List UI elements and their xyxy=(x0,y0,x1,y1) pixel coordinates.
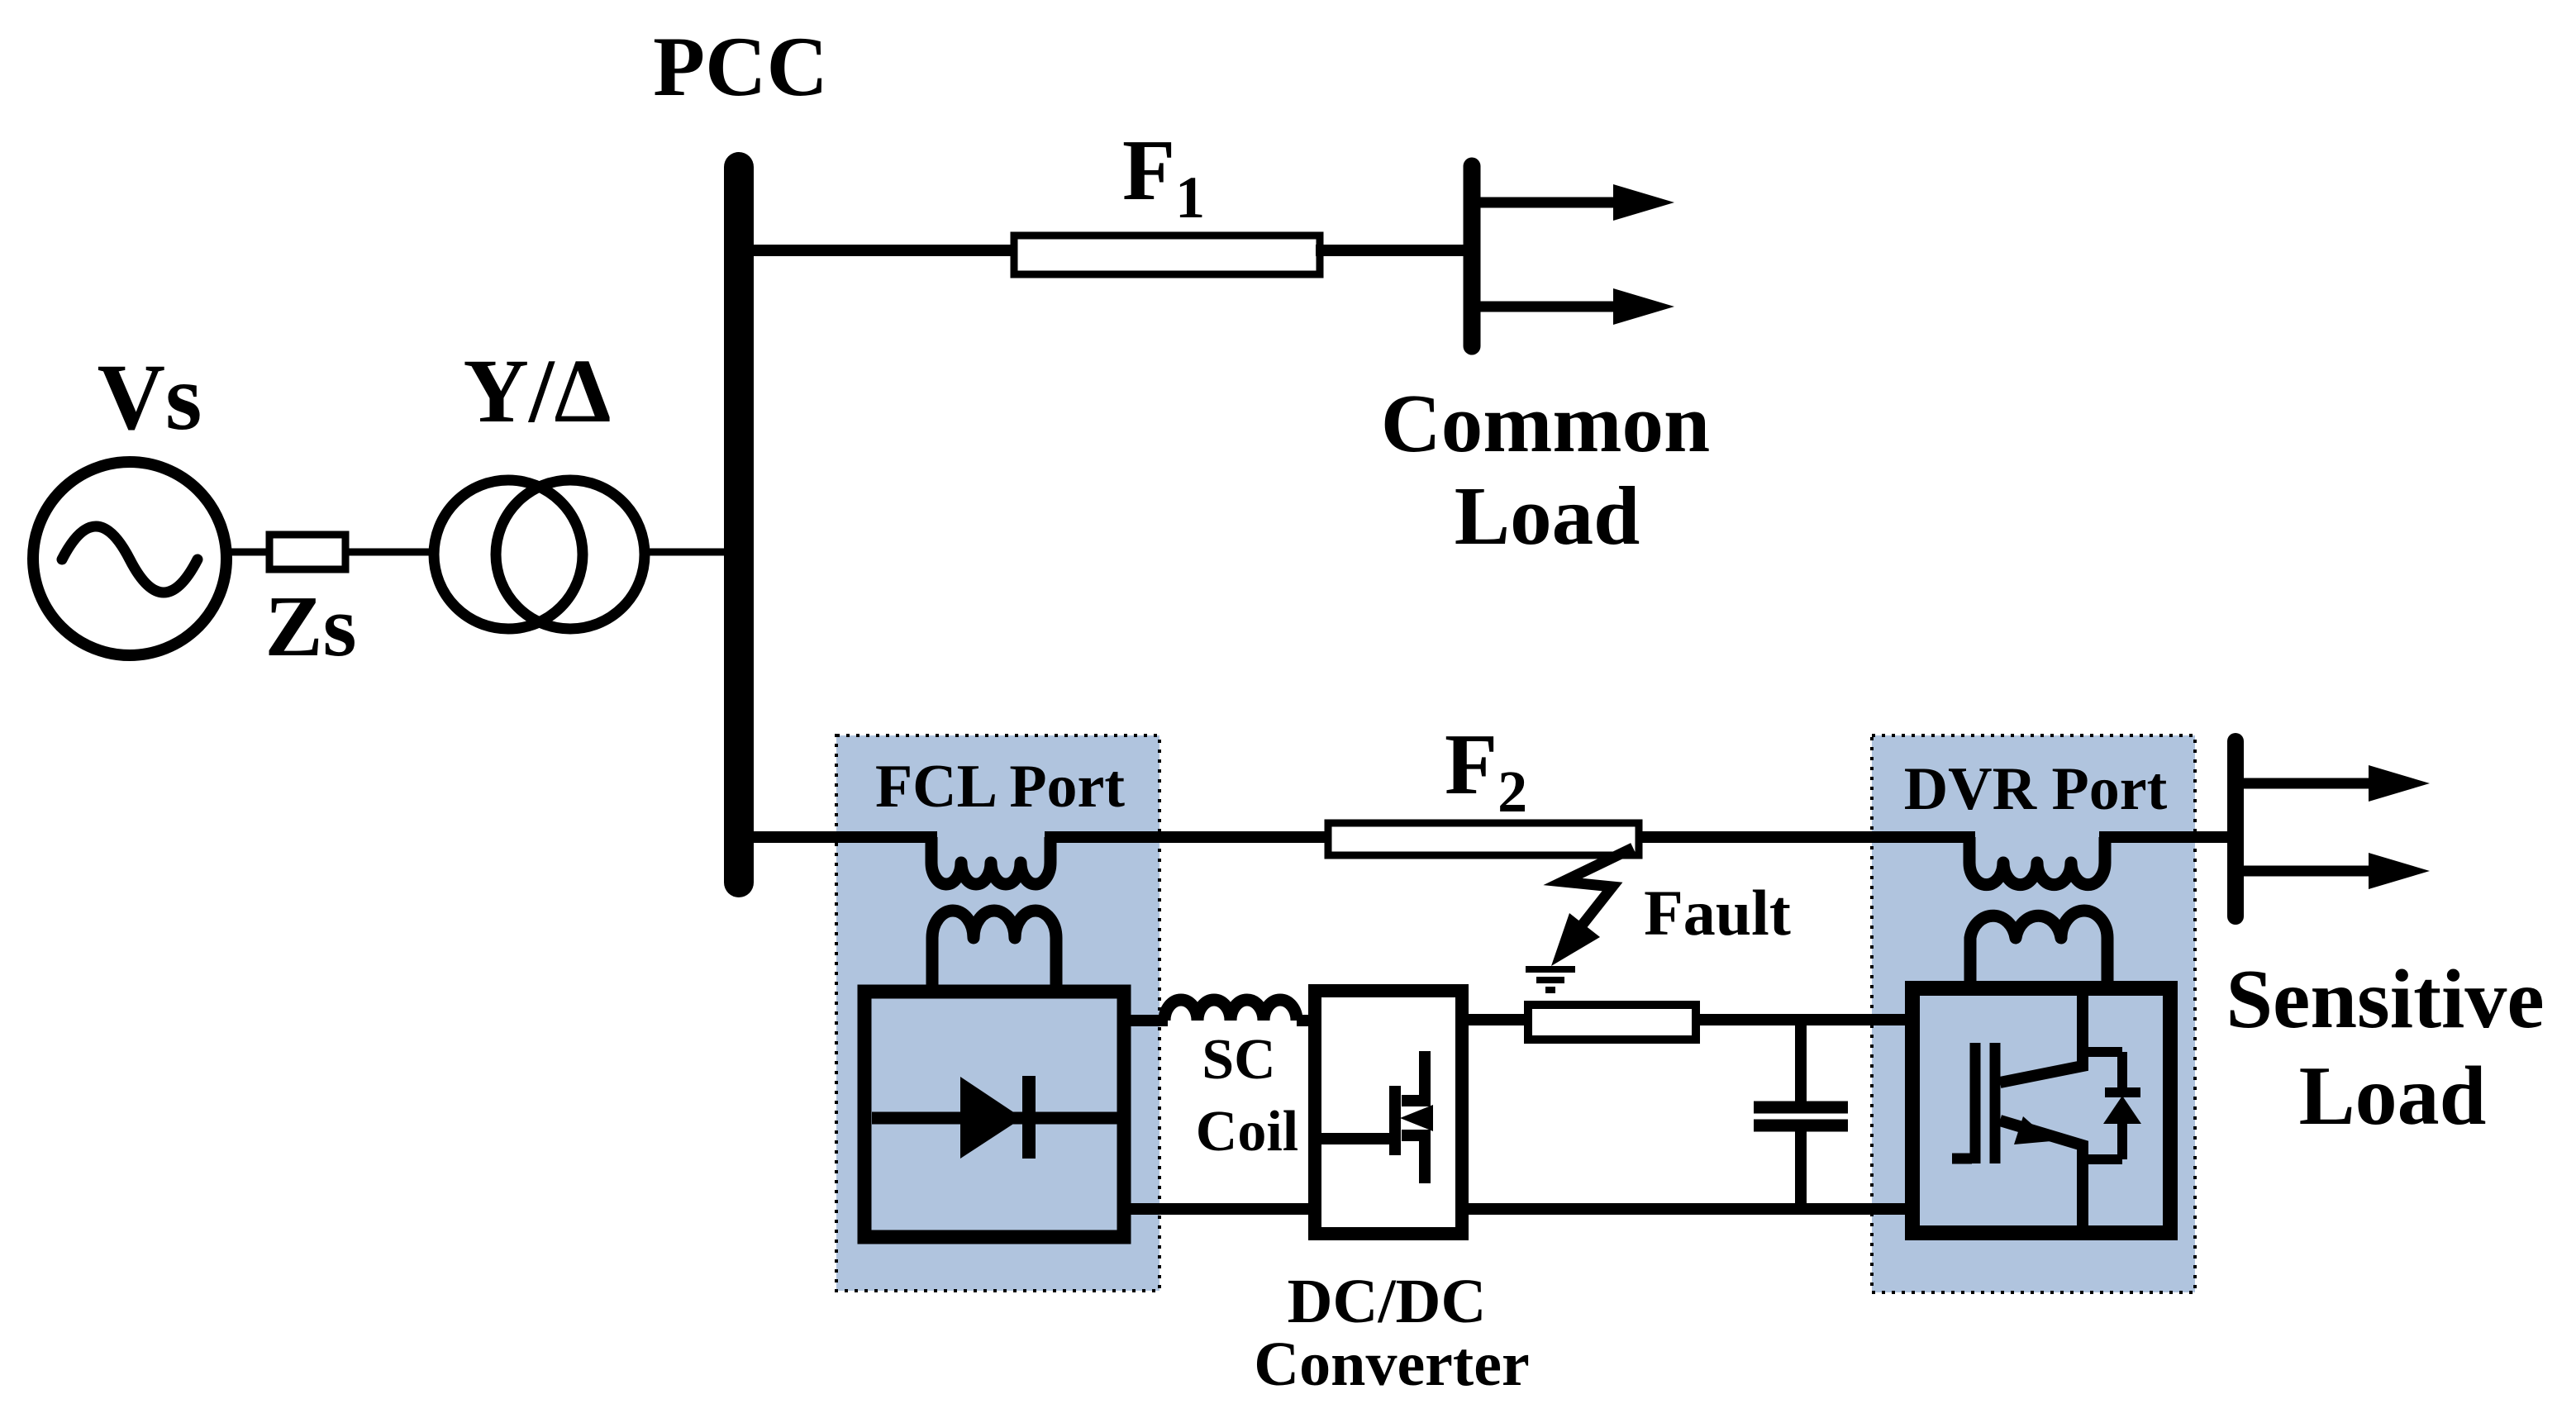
svg-text:Coil: Coil xyxy=(1196,1100,1298,1163)
MOSFET Q1 xyxy=(1321,1051,1433,1183)
DVR transformer secondary xyxy=(1970,911,2107,993)
transformer Y/D xyxy=(434,480,645,629)
wire F2 to DVR transformer xyxy=(1639,831,1975,843)
svg-text:Common: Common xyxy=(1381,377,1710,469)
svg-text:Vs: Vs xyxy=(98,345,202,450)
FCL transformer primary xyxy=(931,837,1050,884)
sensitive arrow 2 xyxy=(2243,853,2430,889)
common load bus xyxy=(1464,166,1481,346)
PCC bus xyxy=(724,167,754,883)
bottom row wire DC/DC to inverter xyxy=(1462,1203,1912,1215)
wire SC coil to DC/DC xyxy=(1297,1015,1318,1026)
wire rectifier to SC coil xyxy=(1124,1015,1168,1026)
svg-text:DC/DC: DC/DC xyxy=(1288,1267,1487,1336)
middle row wire DC/DC to fuse xyxy=(1462,1014,1531,1025)
bottom row wire rectifier to DC/DC xyxy=(1124,1203,1315,1215)
impedance Zs xyxy=(269,535,345,569)
diode D1 xyxy=(960,1076,1029,1159)
freewheel diode D2 xyxy=(2085,1052,2141,1159)
capacitor C1 xyxy=(1754,1020,1848,1211)
svg-text:DVR Port: DVR Port xyxy=(1904,755,2168,823)
svg-text:Y/Δ: Y/Δ xyxy=(464,340,612,441)
wire fuse to inverter xyxy=(1696,1014,1912,1025)
wire FCL transformer to F2 xyxy=(1045,831,1332,843)
wire bus to FCL transformer xyxy=(739,831,937,843)
wire F1 to common load bus xyxy=(1316,245,1472,256)
svg-text:SC: SC xyxy=(1202,1028,1275,1092)
svg-text:Converter: Converter xyxy=(1254,1330,1529,1399)
inverter box (DVR) xyxy=(1912,988,2170,1233)
wire DVR transformer to sensitive bus xyxy=(2099,831,2236,843)
fuse F3 xyxy=(1528,1005,1696,1040)
wire bus to F1 xyxy=(739,245,1018,256)
svg-text:Load: Load xyxy=(2299,1049,2487,1143)
wire Zs to transformer xyxy=(345,549,438,556)
svg-text:Sensitive: Sensitive xyxy=(2226,953,2544,1046)
DC/DC converter box xyxy=(1315,991,1462,1234)
svg-text:Zs: Zs xyxy=(265,578,357,674)
sensitive arrow 1 xyxy=(2243,765,2430,802)
fault ground xyxy=(1526,969,1575,990)
svg-text:FCL Port: FCL Port xyxy=(875,753,1125,821)
fuse F1 xyxy=(1014,236,1320,274)
DVR Port shaded box xyxy=(1872,735,2195,1292)
wire source to Zs xyxy=(226,549,269,556)
rectifier midline xyxy=(872,1112,1117,1125)
svg-text:PCC: PCC xyxy=(653,20,828,114)
IGBT Q2 xyxy=(1952,988,2083,1233)
rectifier box (FCL) xyxy=(864,992,1124,1237)
FCL Port shaded box xyxy=(836,735,1159,1291)
wire transformer to PCC bus xyxy=(645,549,737,556)
SC coil inductor xyxy=(1164,1000,1297,1021)
DVR transformer primary xyxy=(1969,837,2105,885)
AC source Vs xyxy=(33,462,226,655)
load arrow 2 xyxy=(1479,288,1674,325)
FCL transformer secondary xyxy=(932,911,1056,993)
sensitive load bus xyxy=(2227,741,2244,916)
fuse F2 xyxy=(1328,823,1639,855)
fault lightning bolt xyxy=(1551,848,1633,966)
load arrow 1 xyxy=(1479,184,1674,221)
svg-text:Load: Load xyxy=(1455,469,1640,562)
svg-text:Fault: Fault xyxy=(1644,877,1791,949)
